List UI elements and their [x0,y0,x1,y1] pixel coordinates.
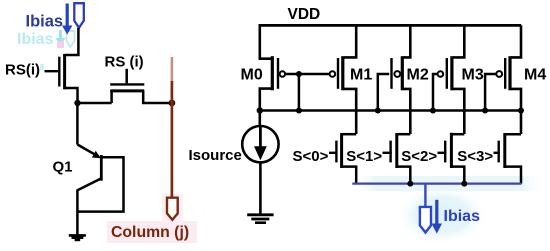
wire: node A to RS (i) left lead [78,102,112,105]
junction dot M4 gate on bus [482,108,488,114]
junction dot M2 gate on bus [375,108,381,114]
switch S0 gate bar [335,141,337,163]
switch S1 gate bar [389,141,391,163]
transistor M4 source lead [511,25,521,57]
wire: RS (i) left lead down [110,91,113,103]
ghost tint behind bottom-right Ibias output [396,185,488,245]
wire: VDD rail [259,24,522,27]
transistor M2 source lead [403,25,410,57]
transistor M0 drain lead [260,89,271,111]
switch S2 gate lead [438,152,447,154]
svg-text:RS (i): RS (i) [105,54,144,71]
wire: M4 gate to bus [485,74,496,111]
svg-text:S<0>: S<0> [293,148,329,165]
wire: node A down to Q1 emitter [76,103,79,145]
wire: RS (i) right lead to column [143,91,172,103]
svg-text:Column (j): Column (j) [111,224,189,241]
svg-text:Ibias: Ibias [17,31,54,48]
Isource arrow [259,127,262,149]
transistor M4 drain lead to switch S3 [511,89,521,134]
transistor M1 source lead [344,25,356,57]
Ibias output pentagon [420,207,431,233]
wire: M2 gate to bus [378,74,389,111]
junction dot gate drop on bus [296,108,302,114]
ground (left) [69,234,86,237]
transistor M2 drain lead to switch S1 [403,89,410,134]
transistor M3 gate bar [446,58,448,89]
transistor M0 gate bubble [280,71,285,76]
junction dot M3 gate on bus [430,108,436,114]
wire: RS(i) source to node A [65,88,78,103]
transistor M2 gate bubble [394,71,400,77]
transistor M0 channel [271,56,274,90]
column output pentagon [167,198,178,220]
transistor Q1 base bar [100,155,103,181]
switch S3 source lead [505,167,521,184]
transistor Q1 emitter with arrow [77,145,98,157]
column line [171,81,174,198]
junction dot gate wire [296,71,302,77]
svg-text:Q1: Q1 [53,158,73,175]
transistor M3 gate bubble [438,71,444,77]
wire: pentagon to RS(i) drain [65,28,79,55]
wire: bus to Isource [258,111,261,127]
Ibias input port pentagon [74,3,84,28]
junction dot M0 drain on bus [257,107,263,113]
switch S3 gate bar [498,141,500,163]
switch S1 drain lead [397,133,411,136]
ghost tint behind column arrow [162,194,183,223]
svg-text:Ibias: Ibias [26,12,64,30]
wire: M3 gate to bus [433,74,438,111]
svg-text:M1: M1 [350,67,372,84]
ghost tint band along blue summing line [352,176,545,191]
svg-text:Ibias: Ibias [444,208,481,225]
switch S3 gate lead [494,152,500,154]
Ibias input filled arrow [66,4,69,27]
junction dot S2 on blue line [461,181,467,187]
transistor M3 drain lead to switch S2 [453,89,464,134]
switch S2 gate bar [444,141,446,163]
RS (i) gate bar [110,83,144,85]
transistor M3 channel [450,56,453,90]
transistor M3 source lead [453,25,464,57]
switch S3 drain lead [505,133,521,136]
ghost pentagon artifact [67,31,75,47]
switch S1 gate lead [383,152,392,154]
RS(i) gate lead [45,70,59,72]
switch S0 channel [340,133,343,168]
switch S3 channel [503,133,506,168]
RS(i) gate bar [58,57,60,87]
transistor M1 drain lead to switch S0 [344,89,356,134]
Ibias output filled arrow [435,200,438,225]
transistor Q1 collector [77,179,100,191]
transistor M4 gate bubble [496,71,502,77]
ground (right) [247,213,273,216]
wire: Q1 base loop [77,157,123,211]
transistor M4 channel [508,56,511,90]
transistor M2 gate bar [390,58,392,89]
transistor M2 channel [401,56,404,90]
current source Isource circle [242,126,278,162]
column junction dot [169,100,176,107]
wire: Q1 collector to ground [76,190,79,235]
svg-text:M3: M3 [462,67,484,84]
ghost arrow artifact [56,30,66,46]
transistor M1 channel [341,56,344,90]
column line faded upper segment [171,57,174,81]
switch S0 gate lead [329,152,338,154]
switch S1 channel [395,133,398,168]
switch S0 source lead [342,167,357,184]
transistor M1 gate bubble [330,71,336,77]
svg-text:S<1>: S<1> [346,148,382,165]
switch S1 source lead [397,167,411,184]
wire: mirror gate bus [260,109,521,112]
wire: M0 gate to M1 gate [285,73,330,76]
svg-text:VDD: VDD [288,6,321,23]
wire: blue tap to Ibias output [424,184,426,207]
ghost tint behind Column (j) label [107,221,197,243]
svg-text:S<3>: S<3> [457,148,493,165]
transistor M1 gate bar [337,58,339,89]
svg-text:Isource: Isource [189,147,242,164]
ghost pink tip artifact [57,41,64,48]
svg-text:M2: M2 [407,67,429,84]
wire: blue summing line [352,182,521,184]
switch S2 channel [450,133,453,168]
wire: gate drop to mirror bus [298,74,301,111]
ghost cyan mark near RS(i) gate [40,64,44,70]
transistor RS (i) channel [110,89,144,92]
svg-text:RS(i): RS(i) [5,62,40,79]
transistor M4 gate bar [504,58,506,89]
svg-text:S<2>: S<2> [401,148,437,165]
RS (i) gate vertical lead [125,69,128,84]
junction dot M4 drain on bus [518,108,524,114]
node A junction dot [74,100,80,106]
svg-text:M4: M4 [524,67,546,84]
transistor M0 gate bar [277,58,279,89]
transistor M0 source lead [260,25,271,58]
transistor RS(i) channel [63,54,66,89]
switch S0 drain lead [342,133,357,136]
wire: Isource to ground [259,162,262,213]
svg-text:M0: M0 [241,67,263,84]
switch S2 drain lead [451,133,464,136]
junction dot S1 on blue line [407,181,413,187]
switch S2 source lead [451,167,464,184]
